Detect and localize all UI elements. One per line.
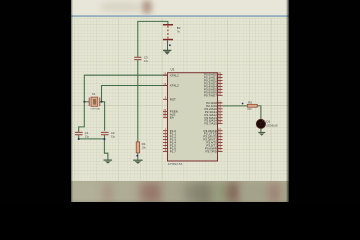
- chip pin names: [170, 73, 218, 154]
- svg-text:18: 18: [163, 84, 166, 86]
- svg-text:19: 19: [163, 74, 166, 76]
- chip pin numbers: [163, 73, 221, 152]
- svg-text:220: 220: [247, 107, 252, 111]
- svg-text:R2: R2: [248, 100, 252, 104]
- svg-text:29: 29: [163, 110, 166, 112]
- svg-text:C2: C2: [111, 131, 115, 135]
- resistor R1: [136, 142, 139, 153]
- wire C2 junction to ground: [104, 139, 108, 160]
- ground LED: [258, 133, 265, 136]
- node junction crystal left: [83, 101, 85, 103]
- svg-text:37: 37: [218, 79, 221, 81]
- wire R1 to ground: [137, 153, 139, 160]
- svg-text:P3.7/RD: P3.7/RD: [206, 149, 218, 153]
- wire LED to ground: [260, 128, 262, 132]
- battery B2: [163, 24, 173, 40]
- bottom blurred band: [71, 181, 289, 202]
- svg-text:24: 24: [218, 110, 221, 112]
- svg-text:15: 15: [218, 144, 221, 146]
- resistor R2: [247, 104, 257, 107]
- svg-text:B2: B2: [177, 26, 181, 30]
- wire RST net vertical through C3 down to R1: [137, 60, 139, 142]
- node marker battery minus: [169, 44, 171, 46]
- svg-text:C3: C3: [144, 56, 148, 60]
- svg-text:28: 28: [218, 122, 221, 124]
- svg-text:CRYSTAL: CRYSTAL: [91, 108, 102, 111]
- node marker C2 bottom: [104, 138, 106, 140]
- node marker C1 bottom: [78, 138, 80, 140]
- svg-text:U1: U1: [171, 67, 175, 71]
- crystal X1: [89, 97, 100, 106]
- wire crystal right lead: [100, 101, 102, 103]
- svg-text:D1: D1: [266, 119, 270, 123]
- wire crystal left lead: [84, 101, 89, 103]
- chip pin stubs: [163, 75, 223, 152]
- svg-text:P0.7/AD7: P0.7/AD7: [204, 93, 217, 97]
- wire XTAL2 to C2: [102, 102, 105, 131]
- svg-text:34: 34: [218, 88, 221, 90]
- svg-text:X1: X1: [92, 92, 96, 96]
- node marker near R2: [242, 103, 244, 105]
- svg-text:22: 22: [218, 104, 221, 106]
- op chip U1 AT89C51: [168, 73, 218, 161]
- svg-text:AT89C51: AT89C51: [168, 162, 183, 166]
- svg-text:C1: C1: [85, 131, 89, 135]
- wire XTAL1 net: [79, 75, 168, 132]
- svg-text:39: 39: [218, 73, 221, 75]
- svg-text:XTAL2: XTAL2: [170, 84, 179, 88]
- svg-text:33: 33: [218, 91, 221, 93]
- wire chip P2.1 to R2: [223, 105, 248, 107]
- blurred smudges in top strip: [100, 2, 140, 12]
- svg-text:16: 16: [218, 147, 221, 149]
- svg-text:9v: 9v: [177, 30, 180, 34]
- capacitor C3: [134, 57, 141, 59]
- svg-text:12: 12: [218, 135, 221, 137]
- wire battery feed from RST net: [79, 21, 261, 159]
- wire C1 C2 ground link: [79, 138, 105, 140]
- svg-text:21: 21: [218, 101, 221, 103]
- svg-text:32: 32: [218, 94, 221, 96]
- ground R1: [133, 160, 142, 164]
- node junction crystal right: [101, 101, 103, 103]
- svg-text:36: 36: [218, 82, 221, 84]
- svg-text:25: 25: [218, 113, 221, 115]
- svg-text:31: 31: [163, 116, 166, 118]
- wire XTAL2 net: [102, 86, 168, 102]
- svg-text:35: 35: [218, 85, 221, 87]
- svg-text:30: 30: [163, 113, 166, 115]
- svg-text:P1.7: P1.7: [170, 149, 177, 153]
- svg-text:13: 13: [218, 138, 221, 140]
- svg-text:P2.7/A15: P2.7/A15: [205, 122, 218, 126]
- svg-text:27: 27: [218, 119, 221, 121]
- wire R2 to LED: [257, 106, 261, 120]
- capacitor C1: [75, 132, 83, 134]
- ground battery: [163, 40, 171, 55]
- svg-text:EA: EA: [170, 116, 174, 120]
- svg-text:R1: R1: [142, 142, 146, 146]
- svg-text:LED-BLUE: LED-BLUE: [266, 126, 278, 128]
- ground C1 C2: [104, 160, 113, 164]
- LED D1: [256, 119, 265, 128]
- svg-text:XTAL1: XTAL1: [170, 73, 179, 77]
- svg-text:38: 38: [218, 76, 221, 78]
- svg-text:23: 23: [218, 107, 221, 109]
- svg-text:10: 10: [218, 129, 221, 131]
- svg-text:14: 14: [218, 141, 221, 143]
- svg-text:RST: RST: [170, 97, 176, 101]
- svg-text:17: 17: [218, 150, 221, 152]
- node marker below R1: [136, 155, 138, 157]
- svg-text:26: 26: [218, 116, 221, 118]
- capacitor C2: [101, 132, 109, 134]
